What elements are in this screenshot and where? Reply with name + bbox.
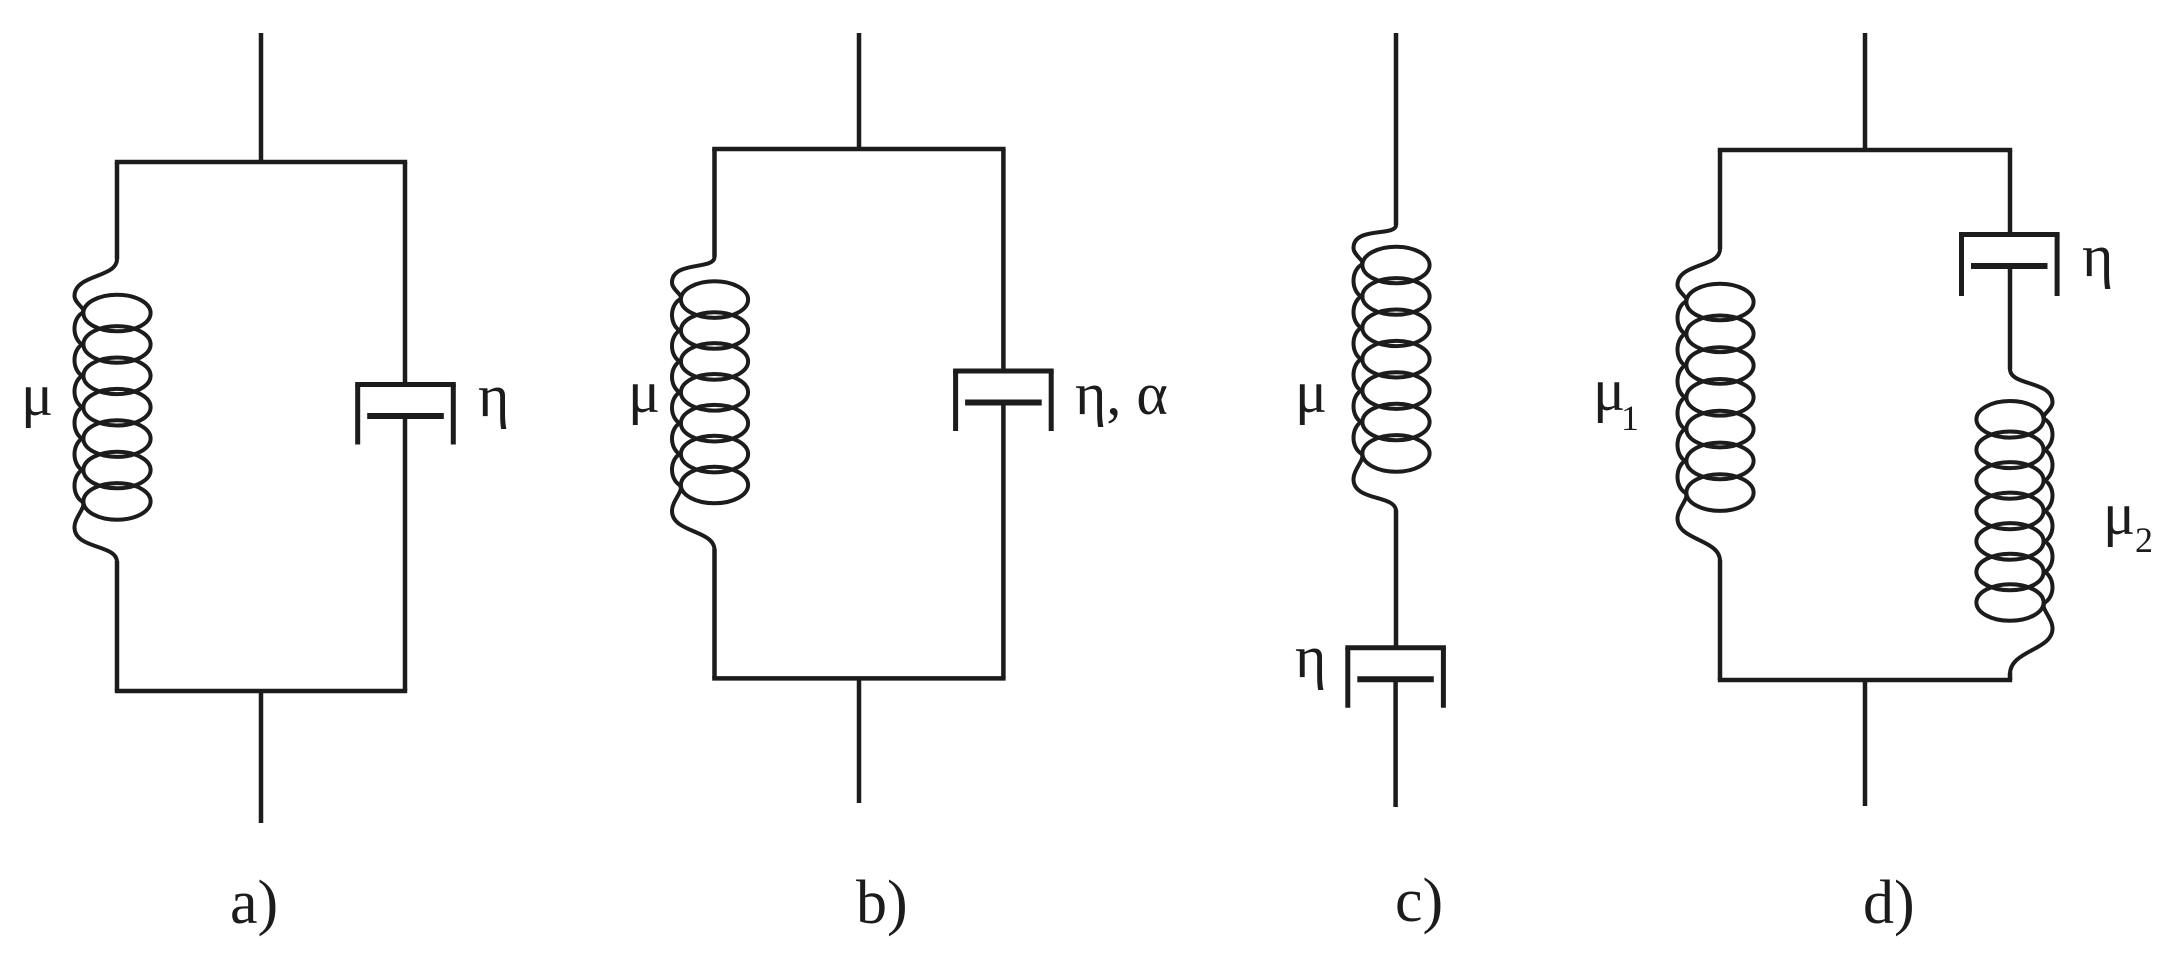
spring mu2 (d) rail wire <box>2010 369 2053 674</box>
svg-text:1: 1 <box>1621 398 1639 438</box>
svg-text:c): c) <box>1395 867 1443 935</box>
dashpot eta (a) piston <box>367 413 444 419</box>
bottom terminal wire a <box>259 691 264 823</box>
right branch lower wire d <box>2008 673 2013 680</box>
dashpot d piston rod <box>2008 266 2013 369</box>
top terminal wire c <box>1394 33 1399 225</box>
dashpot eta (c) cylinder <box>1345 645 1446 650</box>
top node bar d <box>1718 148 2012 153</box>
spring mu (c) loops <box>1362 247 1429 284</box>
svg-text:μ: μ <box>1295 359 1327 425</box>
svg-text:2: 2 <box>2135 520 2153 560</box>
dashpot eta (c) piston <box>1357 676 1434 682</box>
right branch upper wire b <box>1001 149 1006 371</box>
dashpot eta-alpha (b) piston <box>965 400 1042 406</box>
spring mu (b) rail wire <box>672 257 715 550</box>
dashpot eta-alpha (b) cylinder <box>953 369 1054 374</box>
left branch lower wire d <box>1718 560 1723 680</box>
middle wire c <box>1394 510 1399 648</box>
left branch upper wire a <box>115 162 120 259</box>
top node bar a <box>115 160 407 165</box>
right branch upper wire a <box>403 162 408 385</box>
svg-text:η, α: η, α <box>1075 361 1168 427</box>
svg-text:η: η <box>2082 223 2113 289</box>
dashpot eta (a) cylinder <box>355 382 456 387</box>
top node bar b <box>712 147 1005 152</box>
bottom node bar a <box>115 689 407 694</box>
spring mu (c) rail wire <box>1354 225 1397 511</box>
bottom terminal wire d <box>1863 680 1868 806</box>
top terminal wire b <box>857 33 862 149</box>
right branch upper wire d <box>2008 150 2013 235</box>
spring mu1 (d) rail wire <box>1678 249 1721 561</box>
svg-text:b): b) <box>856 869 908 937</box>
svg-text:μ: μ <box>628 359 660 425</box>
left branch lower wire b <box>712 549 717 678</box>
top terminal wire d <box>1863 33 1868 150</box>
dashpot eta (d) piston <box>1971 263 2048 269</box>
dashpot eta (d) cylinder <box>1959 232 2060 237</box>
bottom node bar b <box>712 676 1005 681</box>
top terminal wire a <box>259 33 264 162</box>
spring mu (a) loops <box>83 295 150 332</box>
svg-text:μ: μ <box>2103 481 2135 547</box>
spring mu2 (d) loops <box>1976 401 2043 438</box>
svg-text:a): a) <box>230 869 278 937</box>
svg-text:d): d) <box>1863 869 1915 937</box>
svg-text:μ: μ <box>21 362 53 428</box>
svg-text:η: η <box>478 363 509 429</box>
svg-text:η: η <box>1295 624 1326 690</box>
left branch upper wire d <box>1718 150 1723 249</box>
dashpot c piston rod <box>1393 679 1398 807</box>
dashpot a piston rod <box>403 416 408 691</box>
bottom node bar d <box>1718 678 2012 683</box>
bottom terminal wire b <box>857 678 862 803</box>
dashpot b piston rod <box>1001 403 1006 679</box>
spring mu1 (d) loops <box>1686 284 1753 321</box>
spring mu (a) rail wire <box>75 259 118 562</box>
left branch upper wire b <box>712 149 717 257</box>
spring mu (b) loops <box>681 281 748 318</box>
left branch lower wire a <box>115 561 120 691</box>
